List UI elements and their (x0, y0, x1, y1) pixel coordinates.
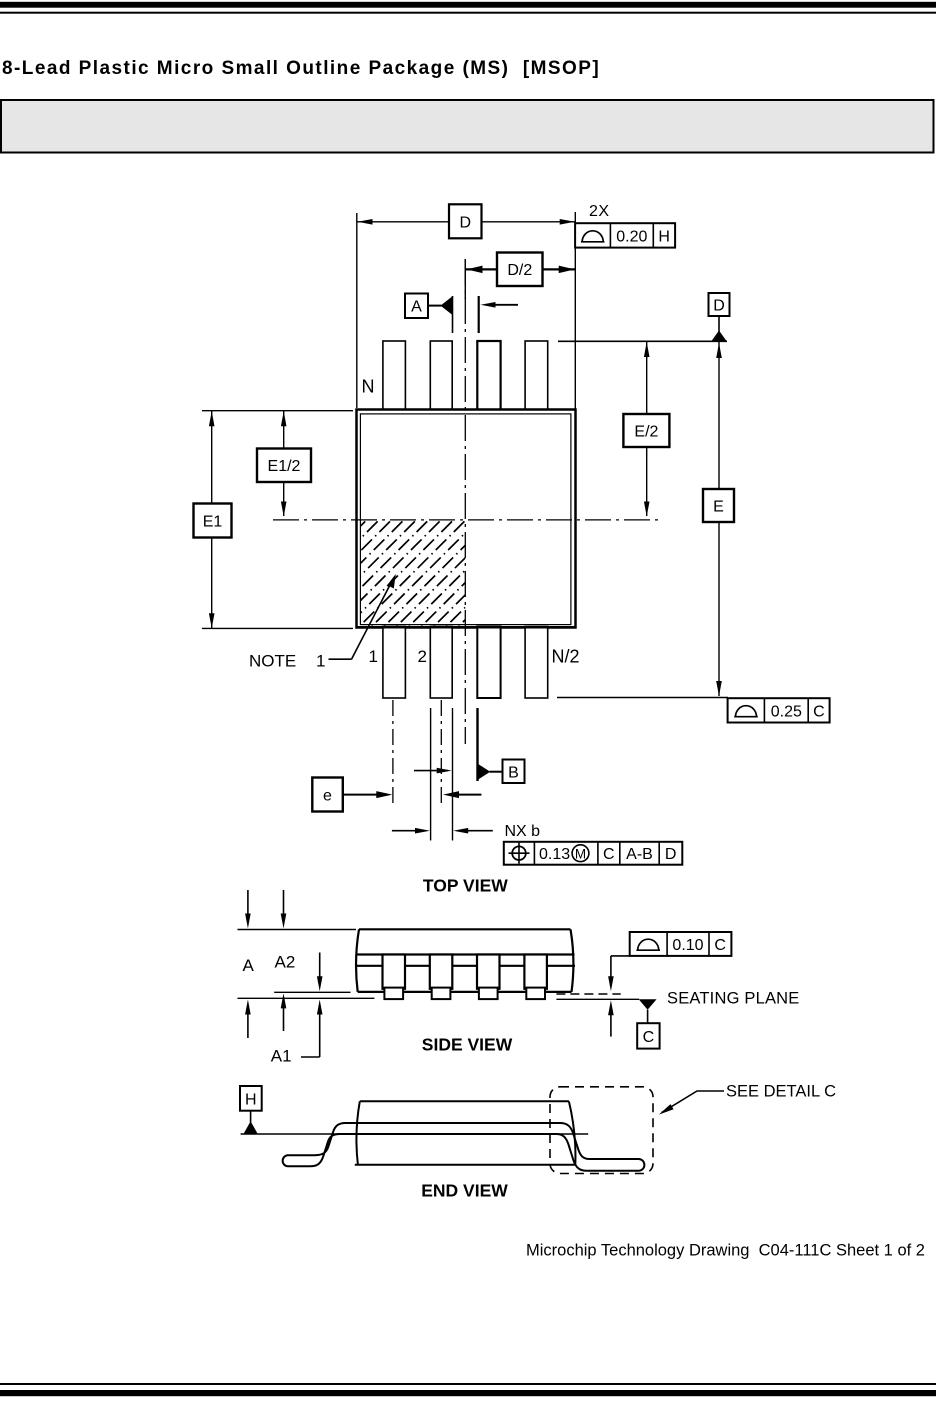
svg-text:SIDE VIEW: SIDE VIEW (422, 1035, 513, 1055)
svg-text:e: e (323, 788, 332, 805)
svg-text:D: D (665, 846, 677, 863)
svg-text:8-Lead Plastic Micro Small Out: 8-Lead Plastic Micro Small Outline Packa… (2, 58, 600, 79)
svg-text:N/2: N/2 (552, 647, 580, 667)
svg-text:E1: E1 (203, 513, 223, 530)
svg-text:M: M (575, 846, 586, 861)
svg-text:A1: A1 (271, 1046, 292, 1065)
svg-text:D: D (460, 215, 472, 232)
svg-text:C: C (603, 846, 615, 863)
svg-text:A2: A2 (275, 952, 296, 971)
svg-text:Microchip Technology Drawing: Microchip Technology Drawing C04-111C Sh… (526, 1242, 925, 1260)
svg-text:0.20: 0.20 (616, 229, 647, 246)
svg-text:TOP VIEW: TOP VIEW (423, 876, 508, 896)
svg-text:B: B (508, 764, 519, 781)
svg-text:H: H (658, 229, 670, 246)
svg-text:NX b: NX b (505, 823, 541, 840)
svg-text:NOTE: NOTE (249, 652, 296, 671)
svg-text:H: H (245, 1092, 257, 1109)
svg-text:E1/2: E1/2 (268, 458, 301, 475)
svg-text:2X: 2X (589, 203, 610, 220)
svg-text:D: D (713, 298, 725, 315)
svg-text:0.25: 0.25 (771, 704, 802, 721)
svg-text:E: E (713, 499, 724, 516)
svg-text:C: C (643, 1029, 655, 1046)
svg-text:E/2: E/2 (634, 424, 658, 441)
svg-text:D/2: D/2 (507, 262, 532, 279)
svg-text:C: C (714, 937, 726, 954)
svg-text:SEATING PLANE: SEATING PLANE (667, 989, 800, 1007)
svg-text:A: A (243, 956, 255, 975)
svg-text:0.10: 0.10 (672, 937, 703, 954)
svg-text:1: 1 (316, 652, 325, 671)
svg-text:SEE DETAIL C: SEE DETAIL C (726, 1083, 836, 1101)
svg-text:1: 1 (369, 647, 378, 666)
svg-text:0.13: 0.13 (539, 846, 570, 863)
svg-text:C: C (813, 704, 825, 721)
svg-text:A-B: A-B (626, 846, 653, 863)
svg-text:2: 2 (418, 647, 427, 666)
svg-text:N: N (362, 377, 375, 397)
svg-text:END VIEW: END VIEW (421, 1181, 508, 1201)
svg-text:A: A (411, 299, 422, 316)
